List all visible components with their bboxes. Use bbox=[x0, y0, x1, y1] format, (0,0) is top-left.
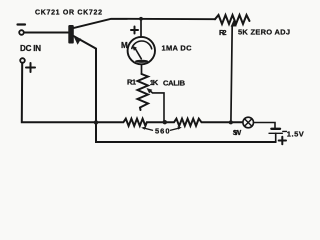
svg-text:R2: R2 bbox=[219, 28, 227, 37]
svg-text:CALIB: CALIB bbox=[163, 79, 186, 88]
svg-text:SW: SW bbox=[233, 128, 243, 137]
svg-text:DC IN: DC IN bbox=[20, 44, 41, 53]
svg-text:1MA DC: 1MA DC bbox=[162, 44, 193, 53]
svg-text:5K ZERO ADJ: 5K ZERO ADJ bbox=[238, 28, 290, 37]
svg-text:M: M bbox=[121, 41, 128, 50]
svg-text:1K: 1K bbox=[150, 78, 159, 87]
svg-text:560: 560 bbox=[155, 127, 170, 136]
svg-text:1.5V: 1.5V bbox=[287, 130, 304, 139]
svg-text:R1: R1 bbox=[127, 78, 136, 87]
svg-text:CK721 OR CK722: CK721 OR CK722 bbox=[35, 10, 102, 17]
